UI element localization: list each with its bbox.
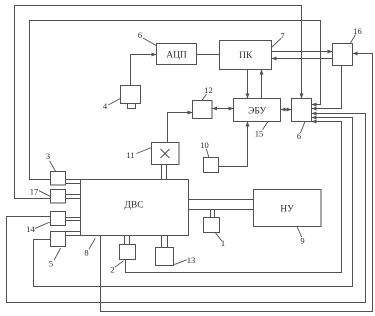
svg-text:3: 3 bbox=[46, 151, 50, 161]
svg-text:13: 13 bbox=[187, 255, 196, 265]
svg-text:ПК: ПК bbox=[239, 51, 253, 61]
svg-text:НУ: НУ bbox=[280, 204, 294, 214]
svg-text:7: 7 bbox=[280, 31, 284, 41]
svg-text:11: 11 bbox=[126, 150, 134, 160]
svg-text:16: 16 bbox=[353, 26, 362, 36]
svg-text:10: 10 bbox=[200, 140, 209, 150]
svg-text:6: 6 bbox=[297, 131, 301, 141]
svg-text:ДВС: ДВС bbox=[124, 200, 143, 210]
svg-text:ЭБУ: ЭБУ bbox=[248, 106, 266, 116]
svg-text:6: 6 bbox=[138, 30, 142, 40]
svg-text:АЦП: АЦП bbox=[166, 51, 187, 61]
svg-text:15: 15 bbox=[255, 129, 264, 139]
svg-text:17: 17 bbox=[30, 187, 39, 197]
svg-text:12: 12 bbox=[204, 85, 213, 95]
svg-text:5: 5 bbox=[49, 259, 53, 269]
svg-text:4: 4 bbox=[103, 101, 108, 111]
svg-text:9: 9 bbox=[300, 236, 304, 246]
svg-text:8: 8 bbox=[84, 248, 88, 258]
svg-text:2: 2 bbox=[110, 265, 114, 275]
svg-text:14: 14 bbox=[26, 224, 35, 234]
svg-text:1: 1 bbox=[221, 238, 225, 248]
